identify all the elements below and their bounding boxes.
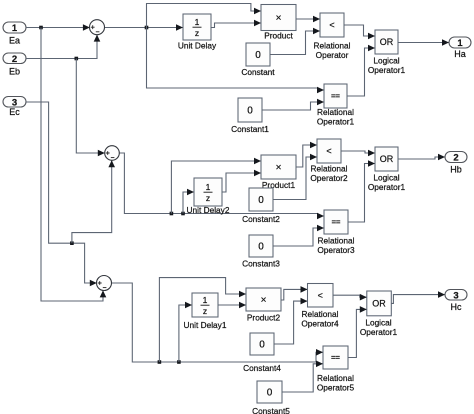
- wire Product2 out to Relational Operator4 in1: [281, 289, 308, 300]
- node Sum1 out branch: [145, 26, 149, 30]
- svg-text:Unit Delay: Unit Delay: [178, 41, 217, 51]
- unit delay block Unit Delay: [178, 14, 217, 51]
- svg-text:Operator5: Operator5: [317, 383, 355, 393]
- svg-text:Operator4: Operator4: [301, 319, 339, 329]
- wire Logical Operator1 out to port Ha: [398, 42, 449, 44]
- constant block Constant4 (0): [243, 333, 281, 373]
- wire Relational Operator out to OR in1: [344, 25, 375, 36]
- output port 2 (Hb): [445, 152, 467, 175]
- relational operator block Relational Operator (&lt;): [314, 13, 351, 60]
- product block Product1: [261, 155, 296, 190]
- relational operator block Relational Operator3 (==): [317, 210, 355, 255]
- wire Eb to Sum1 -: [26, 35, 97, 59]
- relational operator block Relational Operator2 (&lt;): [310, 139, 348, 183]
- wire Sum1 out up to Product in1: [147, 4, 262, 28]
- wire Ea to Sum1 +: [26, 27, 84, 29]
- svg-text:==: ==: [331, 92, 340, 101]
- svg-text:1: 1: [206, 182, 211, 192]
- svg-text:0: 0: [267, 388, 273, 399]
- wire Ec to Sum3 +: [26, 102, 97, 283]
- svg-text:0: 0: [259, 340, 265, 351]
- node Ea branch: [39, 26, 43, 30]
- relational operator block Relational Operator4 (&lt;): [301, 284, 339, 329]
- svg-text:Hc: Hc: [451, 302, 462, 312]
- svg-text:z: z: [206, 193, 210, 203]
- node Eb branch: [75, 57, 79, 61]
- svg-text:z: z: [203, 306, 207, 316]
- svg-text:Constant1: Constant1: [231, 124, 269, 134]
- wire Constant1 out to Relational Operator1 in2: [262, 102, 324, 110]
- node Sum2 out branch: [170, 212, 174, 216]
- wire Product out to Relational Operator in1: [296, 18, 320, 20]
- svg-text:==: ==: [331, 353, 340, 362]
- sum block Sum2 (Eb-Ec): [105, 146, 120, 161]
- svg-text:2: 2: [12, 54, 17, 65]
- svg-text:<: <: [329, 20, 334, 30]
- relational operator block Relational Operator5 (==): [317, 346, 355, 393]
- wire Logical Operator1 out to port Hb: [398, 157, 445, 159]
- svg-text:Relational: Relational: [302, 309, 339, 319]
- svg-text:<: <: [326, 146, 331, 156]
- logical operator block Logical Operator1 (OR) row2: [368, 147, 406, 192]
- input port 1 (Ea): [3, 22, 26, 45]
- input port 2 (Eb): [3, 53, 26, 77]
- wire Relational Operator1 out to OR in2: [347, 48, 375, 96]
- constant block Constant2 (0): [242, 188, 280, 224]
- svg-text:1: 1: [195, 17, 200, 27]
- svg-text:Relational: Relational: [317, 107, 354, 117]
- svg-text:Relational: Relational: [317, 373, 354, 383]
- node Sum3 out branch: [158, 360, 162, 364]
- svg-text:Unit Delay1: Unit Delay1: [184, 320, 227, 330]
- sum block Sum1 (Ea-Eb): [90, 20, 105, 35]
- svg-text:OR: OR: [380, 154, 394, 164]
- constant block Constant5 (0): [252, 381, 290, 414]
- sum block Sum3 (Ec-Ea): [97, 276, 112, 291]
- svg-text:Ea: Ea: [9, 35, 20, 45]
- wire Constant5 out to Relational Operator5 in2: [282, 364, 323, 392]
- node Sum2 branch to Unit Delay2: [181, 212, 185, 216]
- wire Relational Operator3 out to OR in2: [348, 164, 375, 223]
- wire Product1 out to Relational Operator2 in1: [296, 145, 317, 167]
- svg-text:Operator1: Operator1: [360, 327, 398, 337]
- svg-text:Relational: Relational: [311, 164, 348, 174]
- svg-text:1: 1: [457, 38, 463, 49]
- svg-text:==: ==: [332, 218, 341, 227]
- input port 3 (Ec): [3, 97, 26, 117]
- wire Constant4 out to Relational Operator4 in2: [274, 301, 308, 344]
- wire Sum3 branch up to Product2 in1: [159, 278, 246, 362]
- svg-text:Constant5: Constant5: [252, 406, 290, 414]
- svg-text:Product: Product: [264, 30, 293, 40]
- wire Unit Delay2 out to Product1 in2: [222, 173, 261, 192]
- wire Sum2 branch to Unit Delay2 in: [183, 192, 194, 214]
- wire Constant3 out to Relational Operator3 in2: [273, 228, 324, 246]
- output port 3 (Hc): [445, 290, 467, 313]
- svg-text:1: 1: [203, 295, 208, 305]
- logical operator block Logical Operator1 (OR) row3: [360, 291, 398, 337]
- relational operator block Relational Operator1 (==): [317, 84, 355, 127]
- svg-text:Operator1: Operator1: [368, 182, 406, 192]
- svg-text:Product2: Product2: [247, 313, 281, 323]
- constant block Constant1 (0): [231, 98, 269, 134]
- svg-text:×: ×: [276, 13, 282, 24]
- svg-text:Unit Delay2: Unit Delay2: [187, 205, 230, 215]
- svg-text:Ha: Ha: [454, 49, 466, 59]
- wire Ec branch up to Sum2 -: [72, 160, 112, 243]
- logical operator block Logical Operator1 (OR) row1: [368, 30, 406, 75]
- svg-text:Operator1: Operator1: [368, 65, 406, 75]
- wire Sum1 out to Unit Delay: [104, 27, 183, 29]
- svg-text:Operator: Operator: [316, 50, 349, 60]
- svg-text:Logical: Logical: [373, 55, 399, 65]
- node Ec branch: [70, 241, 74, 245]
- svg-text:0: 0: [258, 242, 264, 253]
- svg-text:Constant4: Constant4: [243, 363, 281, 373]
- wire Logical Operator1 out to port Hc: [391, 295, 445, 304]
- wire Relational Operator2 out to OR in1: [341, 151, 375, 153]
- svg-text:Operator1: Operator1: [317, 117, 355, 127]
- wire Sum3 branch to Unit Delay1 in: [179, 305, 192, 362]
- unit delay block Unit Delay2: [187, 178, 230, 215]
- wire Unit Delay out to Product in2: [211, 23, 261, 28]
- svg-text:Logical: Logical: [365, 317, 391, 327]
- wire Constant out to Relational Operator in2: [270, 31, 320, 55]
- unit delay block Unit Delay1: [184, 293, 227, 330]
- svg-text:Eb: Eb: [9, 67, 20, 77]
- svg-text:0: 0: [255, 50, 261, 61]
- svg-text:2: 2: [453, 153, 458, 164]
- node Sum3 branch to Unit Delay1: [177, 360, 181, 364]
- wire Sum1 out down to Relational Operator1 in1: [147, 28, 325, 91]
- svg-text:Constant2: Constant2: [242, 214, 280, 224]
- svg-text:×: ×: [261, 295, 267, 306]
- wire Sum2 branch up to Product1 in1: [171, 161, 261, 214]
- svg-text:Operator2: Operator2: [310, 173, 348, 183]
- wire Constant2 out to Relational Operator2 in2: [273, 157, 317, 200]
- svg-text:1: 1: [12, 23, 18, 34]
- svg-text:Ec: Ec: [9, 107, 20, 117]
- svg-text:Operator3: Operator3: [317, 245, 355, 255]
- svg-text:<: <: [318, 290, 323, 300]
- product block Product: [261, 5, 296, 41]
- product block Product2: [246, 288, 281, 323]
- svg-text:OR: OR: [372, 299, 386, 309]
- constant block Constant (0): [241, 43, 275, 77]
- svg-text:×: ×: [276, 163, 282, 174]
- svg-text:Constant: Constant: [241, 67, 275, 77]
- wire Ea branch down to Sum3 -: [41, 28, 103, 302]
- wire Relational Operator5 out to OR in2: [348, 309, 367, 357]
- svg-text:Hb: Hb: [450, 165, 462, 175]
- wire Sum2 out down and right to Relational Operator3 in1: [119, 153, 324, 216]
- constant block Constant3 (0): [242, 235, 280, 269]
- wire Sum3 out down and right to Relational Operator5 in1: [111, 283, 323, 362]
- wire Relational Operator4 out to OR in1: [333, 295, 367, 297]
- wire Unit Delay1 out to Product2 in2: [218, 304, 246, 306]
- svg-text:Relational: Relational: [314, 41, 351, 51]
- svg-text:z: z: [195, 28, 199, 38]
- svg-text:OR: OR: [380, 37, 394, 47]
- svg-text:0: 0: [247, 106, 253, 117]
- svg-text:3: 3: [453, 290, 458, 301]
- svg-text:0: 0: [258, 195, 264, 206]
- svg-text:Logical: Logical: [373, 173, 399, 183]
- wire Eb branch down to Sum2 +: [76, 59, 104, 154]
- svg-text:Constant3: Constant3: [242, 259, 280, 269]
- output port 1 (Ha): [449, 37, 471, 59]
- svg-text:Relational: Relational: [318, 236, 355, 246]
